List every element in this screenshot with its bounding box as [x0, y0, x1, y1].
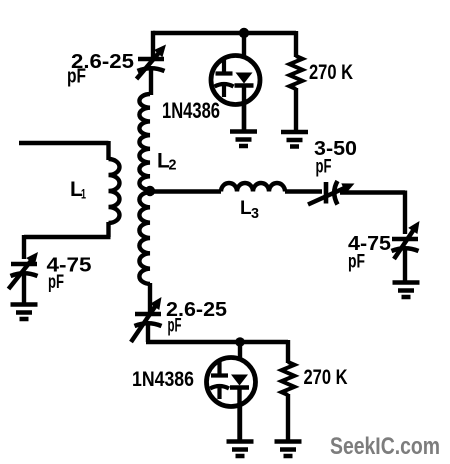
wire C1 to L2 [149, 70, 153, 95]
svg-text:pF: pF [48, 272, 64, 293]
svg-text:1: 1 [81, 186, 86, 202]
wire top-left drop to C1 [151, 31, 155, 58]
ground below C4 [393, 283, 420, 298]
ground below R1 [281, 132, 308, 147]
svg-text:270 K: 270 K [304, 366, 348, 389]
capacitor C3 4-75 pF (variable) [11, 262, 37, 267]
wire to resistor R2 [286, 340, 290, 363]
ground below R2 [275, 442, 302, 457]
node L2 tap junction [145, 186, 155, 196]
svg-text:2: 2 [169, 158, 177, 174]
wire C5 to right corner [340, 191, 405, 235]
ground below D2 [227, 442, 254, 457]
svg-text:SeekIC.com: SeekIC.com [330, 433, 440, 460]
wire antenna input top-left [19, 141, 109, 160]
ground below D1 [230, 132, 257, 147]
resistor R1 270K [290, 56, 303, 89]
wire C4 to ground [403, 249, 407, 282]
wire C3 to ground [22, 274, 26, 304]
capacitor C1 2.6-25 pF (variable) [138, 57, 164, 62]
wire redraw D1 cathode lead [242, 86, 246, 131]
wire L3 to C5 [285, 189, 322, 193]
wire L2 to C2 [148, 283, 152, 312]
wire through varactor D1 [242, 33, 246, 131]
svg-text:pF: pF [67, 66, 86, 88]
svg-text:pF: pF [316, 157, 332, 178]
wire redraw D2 cathode lead [237, 388, 241, 441]
svg-text:pF: pF [348, 252, 365, 273]
wire R2 to ground [286, 394, 290, 441]
svg-text:1N4386: 1N4386 [132, 368, 194, 391]
wire R1 to ground [294, 88, 298, 132]
inductor L2 upper section [139, 94, 150, 190]
capacitor C4 4-75 pF (variable) [392, 237, 418, 242]
varactor diode D2 1N4386 [207, 358, 256, 407]
resistor R2 270K [282, 362, 295, 395]
ground below C3 [11, 305, 38, 320]
node bottom junction [235, 337, 245, 347]
varactor diode D1 1N4386 [211, 56, 260, 105]
svg-text:3: 3 [251, 206, 259, 222]
inductor L2 lower section [139, 192, 150, 284]
wire C2 to bottom node, corner [146, 325, 288, 342]
wire through varactor D2 to ground [238, 342, 242, 441]
wire L1 bottom corner [24, 222, 111, 259]
wire top node horizontal [153, 31, 296, 35]
wire tap to L3 [150, 189, 221, 193]
inductor L3 [221, 183, 285, 192]
capacitor C2 2.6-25 pF (variable) [135, 312, 161, 317]
capacitor C5 3-50 pF (variable, horizontal) [324, 182, 329, 204]
svg-text:pF: pF [168, 316, 182, 337]
node top junction [239, 28, 249, 38]
svg-text:1N4386: 1N4386 [162, 98, 220, 123]
wire to resistor R1 [294, 31, 298, 57]
inductor L1 [109, 159, 120, 223]
svg-text:270 K: 270 K [309, 61, 353, 84]
